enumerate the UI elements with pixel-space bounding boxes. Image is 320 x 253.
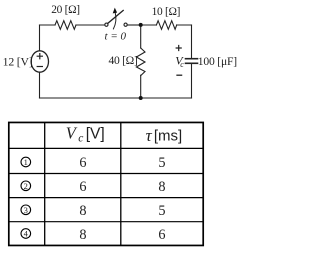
svg-text:6: 6	[79, 155, 86, 171]
svg-text:c: c	[78, 132, 83, 144]
svg-text:4: 4	[24, 229, 29, 239]
svg-text:40 [Ω]: 40 [Ω]	[108, 54, 137, 67]
svg-text:6: 6	[79, 179, 86, 195]
svg-text:8: 8	[79, 227, 86, 243]
svg-text:20 [Ω]: 20 [Ω]	[51, 4, 80, 16]
svg-text:t = 0: t = 0	[105, 30, 127, 42]
svg-text:100 [μF]: 100 [μF]	[198, 55, 237, 68]
svg-text:5: 5	[158, 203, 165, 219]
svg-text:8: 8	[158, 179, 165, 195]
svg-text:τ: τ	[146, 126, 153, 145]
svg-text:3: 3	[24, 205, 28, 215]
svg-text:12 [V]: 12 [V]	[3, 55, 33, 69]
svg-text:6: 6	[158, 227, 165, 243]
svg-text:5: 5	[158, 155, 165, 171]
svg-text:10 [Ω]: 10 [Ω]	[152, 6, 181, 18]
svg-text:c: c	[180, 60, 184, 69]
svg-text:[V]: [V]	[86, 125, 105, 142]
svg-text:8: 8	[79, 203, 86, 219]
svg-text:2: 2	[24, 181, 28, 191]
svg-text:[ms]: [ms]	[154, 127, 182, 144]
svg-text:1: 1	[24, 157, 28, 167]
